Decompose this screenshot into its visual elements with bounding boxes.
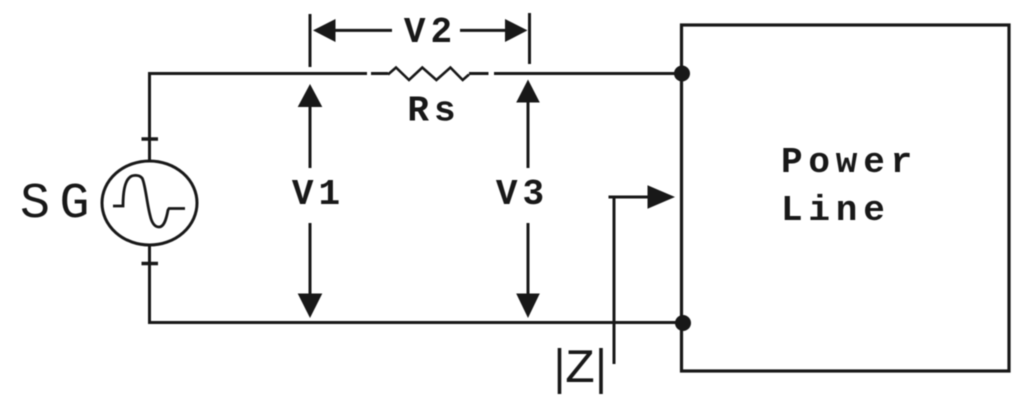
wire top: resistor to box node: [469, 72, 682, 75]
label V3: [496, 174, 549, 215]
resistor Rs: [388, 68, 469, 81]
svg-text:V2: V2: [404, 12, 457, 53]
svg-text:Z: Z: [565, 343, 595, 397]
wire left vertical: top lead of SG: [148, 72, 151, 161]
signal generator SG circle: [102, 161, 197, 245]
svg-text:Rs: Rs: [407, 91, 460, 132]
node junction dot top: [674, 66, 690, 82]
label Rs: [407, 91, 460, 132]
SG terminal tick bottom: [142, 262, 159, 265]
V2 dimension extension line right: [528, 13, 531, 64]
power line box: [682, 25, 1010, 371]
svg-text:V3: V3: [496, 174, 549, 215]
wire left vertical: bottom lead of SG: [148, 245, 151, 323]
label Power Line: [781, 142, 918, 231]
label V2: [404, 12, 457, 53]
wire bottom: SG to box node: [148, 321, 683, 324]
V2 dimension line with arrowheads: [313, 19, 528, 42]
V1 measurement arrow (double-headed): [298, 84, 323, 318]
SG terminal tick top: [142, 137, 159, 140]
svg-text:Line: Line: [781, 190, 891, 231]
V2 dimension extension line left: [309, 14, 312, 67]
svg-text:SG: SG: [20, 176, 99, 233]
label V1: [292, 174, 345, 215]
wire top: SG to resistor: [150, 72, 388, 75]
label |Z|: [560, 343, 602, 397]
SG sine waveform: [113, 175, 185, 227]
svg-text:V1: V1: [292, 174, 345, 215]
svg-text:Power: Power: [781, 142, 918, 183]
node junction dot bottom: [675, 315, 691, 331]
V3 measurement arrow (double-headed): [516, 80, 540, 319]
label SG: [20, 176, 99, 233]
|Z| pointer arrow into box: [609, 185, 676, 364]
